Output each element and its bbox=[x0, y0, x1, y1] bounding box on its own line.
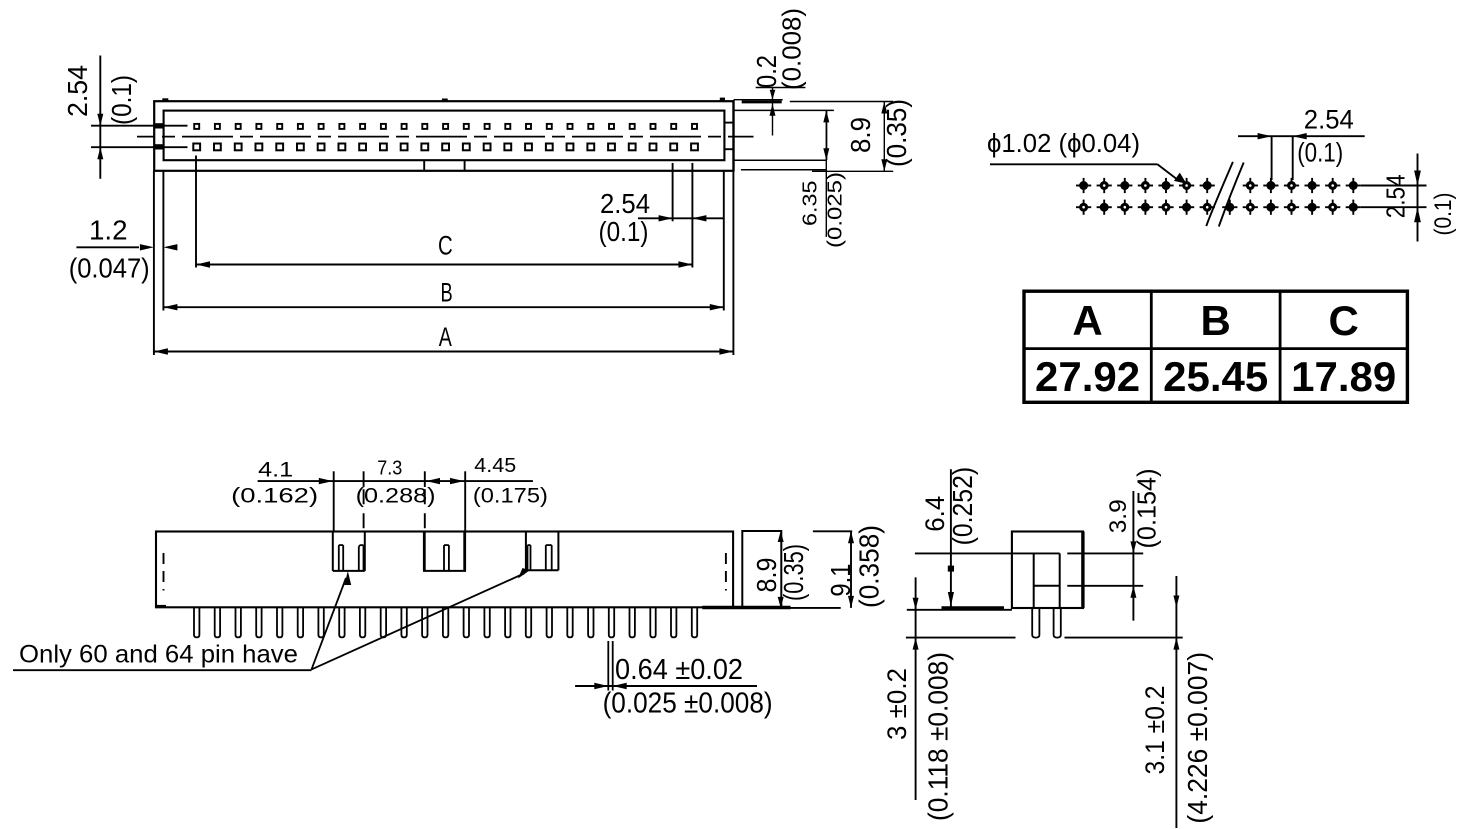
svg-text:C: C bbox=[438, 230, 453, 260]
dimension 2.54 (0.1) left vertical bbox=[62, 56, 137, 179]
svg-text:A: A bbox=[1072, 297, 1102, 344]
side view top tab plate bbox=[734, 100, 783, 102]
top view dashed centerline bbox=[137, 136, 754, 138]
dimension 6.4 (0.252) bbox=[920, 467, 978, 607]
callout Only 60 and 64 pin have bbox=[13, 568, 530, 670]
svg-text:(0.288): (0.288) bbox=[356, 484, 436, 508]
svg-text:(0.047): (0.047) bbox=[69, 253, 150, 284]
top view top-edge index bumps bbox=[162, 98, 725, 102]
svg-text:7.3: 7.3 bbox=[377, 458, 402, 480]
top view pin row 1 (25 square pins) bbox=[194, 124, 697, 129]
svg-text:B: B bbox=[441, 278, 453, 308]
front view latch cutout 1 bbox=[333, 532, 365, 571]
dimension 2.54 (0.1) right of top view bbox=[599, 188, 724, 247]
front view latch cutout 3 bbox=[526, 532, 559, 571]
svg-text:17.89: 17.89 bbox=[1291, 353, 1396, 400]
svg-text:(0.175): (0.175) bbox=[473, 484, 548, 508]
dimension 6.35 (0.025) bbox=[800, 110, 847, 248]
svg-text:Only 60 and 64 pin have: Only 60 and 64 pin have bbox=[19, 641, 298, 669]
dimension 0.64 +/-0.02 pin thickness bbox=[575, 641, 773, 720]
dimension 3.1 +/-0.2 (4.226 +/-0.007) bbox=[1140, 576, 1213, 828]
extension lines for dims, right side bbox=[673, 163, 734, 355]
dimension C bbox=[196, 230, 692, 267]
dimension 2.54 (0.1) footprint vertical bbox=[1361, 154, 1457, 242]
dimension table header row A B C bbox=[1024, 291, 1407, 402]
end view pins (2) bbox=[1032, 608, 1061, 638]
top view connector body inner outline bbox=[164, 111, 725, 161]
svg-text:(0.35): (0.35) bbox=[881, 99, 912, 167]
front view thick base line bbox=[156, 606, 791, 607]
front view body outline bbox=[156, 532, 733, 608]
svg-text:(0.1): (0.1) bbox=[106, 75, 137, 125]
svg-text:(0.35): (0.35) bbox=[778, 544, 809, 601]
dimension 8.9 (0.35) side view bbox=[790, 99, 912, 171]
top view bottom wall key notch bbox=[424, 160, 464, 171]
svg-text:2.54: 2.54 bbox=[1304, 105, 1354, 135]
svg-text:6.4: 6.4 bbox=[920, 496, 950, 532]
svg-text:4.45: 4.45 bbox=[474, 455, 516, 477]
top view connector body outer outline bbox=[154, 101, 733, 171]
front view profile rect with 8.9 dim bbox=[742, 531, 809, 608]
svg-text:(0.008): (0.008) bbox=[777, 8, 807, 90]
top view left wall slots (filled) bbox=[154, 123, 164, 149]
svg-text:C: C bbox=[1329, 297, 1359, 344]
svg-text:3.9: 3.9 bbox=[1105, 499, 1132, 533]
dimension 2.54 (0.1) footprint horizontal bbox=[1238, 105, 1365, 181]
svg-text:(0.252): (0.252) bbox=[947, 467, 978, 546]
svg-text:A: A bbox=[439, 322, 452, 352]
top view pin row 2 (25 square pins) bbox=[193, 144, 698, 151]
svg-text:(0.154): (0.154) bbox=[1132, 469, 1162, 549]
front view hidden dashed end-wall lines bbox=[164, 553, 726, 591]
svg-text:(0.358): (0.358) bbox=[853, 525, 884, 608]
dimension 0.2 (0.008) bbox=[751, 8, 807, 136]
front view pins (25) bbox=[194, 608, 697, 638]
end view body outline bbox=[1012, 532, 1083, 609]
end view cavity bbox=[915, 553, 1143, 608]
dimension 3 +/-0.2 (0.118 +/-0.008) bbox=[882, 577, 954, 821]
dimension 3.9 (0.154) bbox=[1105, 469, 1162, 621]
extension lines for A B C dims, left side bbox=[154, 156, 196, 356]
svg-text:0.64 ±0.02: 0.64 ±0.02 bbox=[615, 654, 743, 686]
top view right wall slot lines bbox=[724, 123, 733, 150]
dimension B bbox=[163, 278, 723, 311]
svg-text:4.1: 4.1 bbox=[258, 457, 293, 481]
front view latch cutout 2 (thick walls) bbox=[423, 532, 466, 571]
svg-text:6.35: 6.35 bbox=[800, 181, 822, 227]
side view body outline bbox=[734, 100, 834, 172]
svg-text:2.54: 2.54 bbox=[62, 65, 93, 117]
dimension A bbox=[154, 322, 734, 355]
dimension 1.2 (0.047) bbox=[69, 215, 178, 284]
end view base lines bbox=[907, 608, 1012, 610]
dimension lines 4.1 7.3 4.45 above front view bbox=[231, 455, 548, 532]
svg-text:(0.025 ±0.008): (0.025 ±0.008) bbox=[603, 688, 773, 720]
svg-text:(4.226 ±0.007): (4.226 ±0.007) bbox=[1182, 652, 1213, 824]
svg-text:ϕ1.02 (ϕ0.04): ϕ1.02 (ϕ0.04) bbox=[987, 128, 1140, 158]
footprint break symbol bbox=[1206, 162, 1243, 227]
dimension 9.1 (0.358) bbox=[791, 525, 885, 608]
footprint pads row 2 bbox=[1076, 200, 1361, 215]
svg-text:27.92: 27.92 bbox=[1035, 353, 1140, 400]
svg-text:(0.118 ±0.008): (0.118 ±0.008) bbox=[923, 652, 954, 821]
svg-text:(0.1): (0.1) bbox=[1297, 138, 1343, 168]
svg-text:B: B bbox=[1201, 297, 1231, 344]
svg-text:8.9: 8.9 bbox=[845, 117, 876, 153]
svg-text:9.1: 9.1 bbox=[825, 564, 856, 597]
svg-text:(0.1): (0.1) bbox=[599, 216, 649, 247]
svg-text:3 ±0.2: 3 ±0.2 bbox=[882, 668, 912, 740]
footprint hole diameter label phi1.02 with leader bbox=[987, 128, 1187, 184]
svg-text:1.2: 1.2 bbox=[89, 215, 128, 246]
svg-text:3.1 ±0.2: 3.1 ±0.2 bbox=[1140, 686, 1170, 775]
svg-text:2.54: 2.54 bbox=[600, 188, 650, 219]
footprint pads row 1 bbox=[1076, 178, 1361, 193]
pin bottom extension line bbox=[906, 637, 1183, 639]
svg-text:(0.025): (0.025) bbox=[825, 172, 847, 248]
pin row extension lines to 2.54 dim bbox=[91, 126, 188, 148]
svg-text:25.45: 25.45 bbox=[1163, 353, 1268, 400]
svg-text:2.54: 2.54 bbox=[1380, 174, 1410, 218]
dimension table value row 27.92 25.45 17.89 bbox=[1035, 353, 1396, 400]
svg-text:(0.1): (0.1) bbox=[1430, 193, 1457, 236]
svg-text:(0.162): (0.162) bbox=[231, 484, 318, 508]
